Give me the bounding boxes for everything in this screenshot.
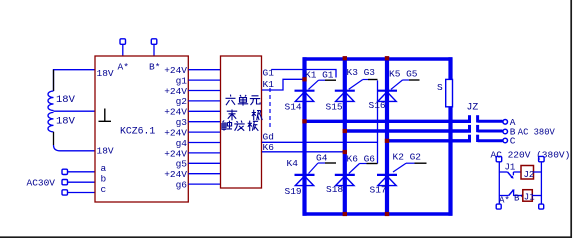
junction dot bottom bus/V2: [343, 212, 347, 216]
terminal A: [503, 120, 508, 125]
terminal top right: [539, 156, 545, 161]
wire +24V (4): [189, 131, 221, 133]
svg-text:K5 G5: K5 G5: [389, 69, 418, 80]
terminal B* top: [151, 39, 157, 45]
svg-text:+24V: +24V: [164, 169, 187, 180]
wire G1 to S14 gate: [271, 70, 336, 78]
svg-text:+24V: +24V: [164, 107, 187, 118]
svg-text:g3: g3: [176, 117, 188, 128]
bus V1: [302, 57, 306, 216]
svg-text:A*: A*: [118, 62, 129, 73]
text 末 极: [227, 110, 262, 121]
wire transformer bottom lead: [53, 132, 55, 145]
wire g6: [189, 183, 221, 185]
wire K6 to V2: [262, 151, 345, 153]
wire K1 to V1: [262, 79, 303, 90]
svg-text:+24V: +24V: [164, 86, 187, 97]
svg-text:g5: g5: [176, 159, 188, 170]
thyristor S19: [285, 152, 337, 197]
dashed expansion line: [269, 88, 271, 128]
svg-text:J1: J1: [524, 192, 535, 202]
junction dot bus B/V2: [343, 129, 347, 133]
svg-text:K2 G2: K2 G2: [393, 152, 422, 163]
junction dot bottom bus/V3: [385, 212, 389, 216]
svg-text:K3 G3: K3 G3: [347, 67, 376, 78]
wire g2: [189, 100, 221, 102]
svg-text:S17: S17: [370, 185, 387, 196]
svg-text:c: c: [101, 184, 107, 195]
ground symbol: [99, 109, 112, 122]
terminal bottom left: [496, 204, 501, 209]
wire +24V (3): [189, 110, 221, 112]
svg-text:18V: 18V: [56, 116, 76, 128]
svg-text:JZ: JZ: [467, 102, 479, 113]
svg-text:K1 G1: K1 G1: [305, 69, 334, 80]
svg-text:g1: g1: [176, 75, 188, 86]
svg-text:J1: J1: [505, 163, 516, 173]
bus top: [303, 57, 453, 61]
wire left rail: [498, 162, 500, 204]
svg-text:J2: J2: [524, 170, 535, 180]
bus phase A: [305, 120, 472, 123]
junction dot K6/V2: [343, 150, 347, 154]
svg-text:K4: K4: [287, 158, 299, 169]
thyristor S18: [326, 154, 378, 196]
wire g3: [189, 121, 221, 123]
svg-text:S18: S18: [326, 184, 343, 195]
svg-text:KCZ6.1: KCZ6.1: [120, 125, 155, 136]
border frame bottom edge: [0, 236, 572, 238]
relay coil J2: [521, 166, 534, 180]
contact J1 rung1: [499, 171, 507, 173]
relay coil J1: [523, 190, 533, 202]
svg-text:a: a: [101, 163, 107, 174]
terminal B: [503, 129, 508, 134]
svg-text:AC 220V (380V): AC 220V (380V): [491, 150, 571, 161]
contact A*B* rung2: [499, 195, 508, 197]
block trigger board: [221, 56, 262, 188]
junction dot K1/V1: [302, 77, 306, 81]
wire +24V (1): [189, 69, 221, 71]
svg-text:S16: S16: [369, 100, 386, 111]
bus bottom: [303, 212, 453, 216]
block KCZ6.1: [95, 56, 188, 202]
terminal A* top: [120, 39, 126, 45]
svg-text:S14: S14: [285, 102, 302, 113]
contactor JZ contact C: [470, 135, 503, 142]
svg-text:Gd: Gd: [263, 131, 274, 142]
bus phase C: [387, 139, 471, 142]
junction dot V3/top bus: [385, 56, 389, 60]
svg-text:+24V: +24V: [164, 128, 187, 139]
svg-text:S15: S15: [326, 102, 343, 113]
bus V4: [448, 57, 452, 216]
bus phase B: [345, 129, 471, 132]
text 触发板: [222, 121, 258, 132]
svg-text:18V: 18V: [56, 94, 76, 106]
junction dot bus C/V3: [385, 139, 389, 143]
terminal C: [503, 138, 508, 143]
svg-text:S: S: [437, 82, 443, 93]
svg-text:K1: K1: [263, 79, 275, 90]
thyristor S17: [370, 152, 427, 196]
svg-text:AC30V: AC30V: [27, 178, 56, 189]
border frame right edge: [570, 0, 572, 238]
junction dot V2/top bus: [343, 56, 347, 60]
svg-text:g2: g2: [176, 96, 188, 107]
thyristor S16: [369, 69, 420, 112]
wire g5: [189, 162, 221, 164]
svg-text:b: b: [101, 174, 107, 185]
contactor JZ contact A: [470, 115, 503, 122]
terminal a: [62, 169, 68, 174]
resistor S: [446, 79, 453, 106]
junction dot bus A/V1: [302, 119, 306, 123]
svg-text:g6: g6: [176, 180, 188, 191]
contactor JZ contact B: [470, 125, 503, 132]
wire +24V (5): [189, 152, 221, 154]
wire right rail: [540, 162, 542, 204]
svg-text:C: C: [510, 136, 516, 147]
wire g1: [189, 79, 221, 81]
svg-text:+24V: +24V: [164, 148, 187, 159]
svg-text:+24V: +24V: [164, 65, 187, 76]
wire transformer top lead: [54, 70, 96, 91]
winding T1b: [48, 112, 54, 131]
wire center tap: [54, 110, 96, 112]
winding T1a: [48, 91, 54, 111]
terminal b: [62, 180, 68, 185]
svg-text:K6 G6: K6 G6: [347, 154, 376, 165]
wire +24V (6): [189, 173, 221, 175]
terminal top left: [496, 156, 502, 161]
svg-text:AC 380V: AC 380V: [518, 127, 556, 137]
bus V2: [343, 57, 347, 216]
thyristor S14: [285, 69, 337, 112]
svg-text:B*: B*: [149, 62, 160, 73]
wire +24V (2): [189, 90, 221, 92]
svg-text:18V: 18V: [97, 68, 114, 79]
svg-text:18V: 18V: [97, 146, 114, 157]
wire Gd to gates G3/G6 vertical: [262, 141, 378, 143]
svg-text:S19: S19: [285, 186, 302, 197]
svg-text:G4: G4: [316, 152, 328, 163]
terminal bottom right: [539, 204, 544, 209]
terminal c: [62, 190, 68, 195]
thyristor S15: [326, 67, 378, 113]
wire g4: [189, 142, 221, 144]
text 六单元: [226, 95, 261, 106]
svg-text:g4: g4: [176, 138, 188, 149]
bus V3: [385, 57, 389, 216]
